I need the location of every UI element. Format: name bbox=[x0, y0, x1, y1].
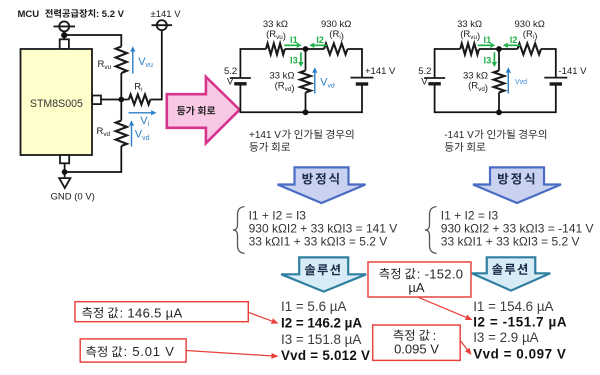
battery 5.2V circuit1 bbox=[230, 77, 251, 79]
node top circuit1 bbox=[303, 46, 309, 52]
measurement box -152.0uA bbox=[368, 262, 471, 297]
node divider junction bbox=[118, 97, 124, 103]
svg-text:-141 V: -141 V bbox=[444, 130, 474, 141]
svg-text:Vvd: Vvd bbox=[515, 79, 527, 86]
wire circuit1 loop bbox=[240, 49, 266, 78]
wire node to Rvd circuit1 bbox=[305, 49, 307, 71]
wire Ri to +-141V terminal bbox=[150, 30, 161, 100]
svg-text:I3 = 2.9 µA: I3 = 2.9 µA bbox=[473, 330, 538, 345]
resistor Rvu circuit2 bbox=[460, 44, 479, 55]
wire node to Rvd bbox=[120, 100, 122, 121]
measurement box 5.01V bbox=[80, 339, 186, 362]
wire Rvd to bottom circuit1 bbox=[305, 93, 307, 113]
pin sense right of STM8S005 bbox=[92, 96, 101, 105]
wire Rvd to ground bbox=[65, 146, 122, 172]
arrow I2 circuit1 bbox=[314, 44, 327, 46]
svg-text:I1 = 5.6 µA: I1 = 5.6 µA bbox=[281, 299, 346, 314]
wire Rvu to node bbox=[120, 73, 122, 100]
resistor Rvd (left block) bbox=[116, 121, 127, 146]
arrow I1 circuit1 bbox=[284, 44, 297, 46]
equation system 1 bbox=[233, 207, 245, 254]
resistor Ri circuit1 bbox=[324, 44, 348, 55]
svg-text:µA: µA bbox=[408, 280, 424, 295]
arrow measurement to I2 (1) bbox=[248, 312, 272, 321]
svg-text:I1: I1 bbox=[484, 35, 492, 45]
svg-text:V: V bbox=[227, 76, 234, 87]
svg-text:5.2: 5.2 bbox=[418, 66, 431, 77]
svg-text:I3: I3 bbox=[290, 56, 298, 66]
battery +141 V circuit1 bbox=[351, 77, 374, 79]
arrow equivalent circuit (pink) bbox=[167, 77, 240, 143]
svg-text:930 kΩI2 + 33 kΩI3 = 141 V: 930 kΩI2 + 33 kΩI3 = 141 V bbox=[249, 222, 398, 236]
arrow I3 circuit1 bbox=[300, 52, 302, 62]
svg-text:I2: I2 bbox=[316, 35, 324, 45]
svg-text:930 kΩI2 + 33 kΩI3 = -141 V: 930 kΩI2 + 33 kΩI3 = -141 V bbox=[441, 222, 594, 236]
resistor Ri circuit2 bbox=[518, 44, 542, 55]
svg-text:5.2: 5.2 bbox=[224, 66, 237, 77]
svg-text:I1 + I2 = I3: I1 + I2 = I3 bbox=[441, 209, 499, 223]
svg-text:±141 V: ±141 V bbox=[151, 9, 182, 20]
arrow solution 2 (cyan) bbox=[472, 257, 551, 290]
wire VSS pin to ground node bbox=[64, 163, 66, 177]
battery -141 V circuit2 bbox=[544, 77, 567, 79]
svg-text:: 5.2 V: : 5.2 V bbox=[96, 9, 125, 20]
resistor Rvu circuit1 bbox=[266, 44, 285, 55]
wire supply to Rvu bbox=[63, 31, 65, 39]
svg-text:I1: I1 bbox=[290, 35, 298, 45]
svg-text:I2 = -151.7 µA: I2 = -151.7 µA bbox=[473, 315, 567, 330]
arrow Vvd circuit2 bbox=[507, 73, 509, 94]
svg-text:I2: I2 bbox=[510, 35, 518, 45]
arrow measurement to Vvd (1) bbox=[186, 351, 271, 356]
arrow equation 1 (blue) bbox=[278, 167, 366, 203]
battery 5.2V circuit2 bbox=[424, 77, 445, 79]
measurement box 0.095V bbox=[373, 325, 461, 360]
svg-text:MCU: MCU bbox=[18, 9, 40, 20]
equation system 2 bbox=[425, 207, 437, 254]
svg-text:GND (0 V): GND (0 V) bbox=[51, 192, 95, 203]
chip STM8S005 bbox=[21, 49, 93, 155]
svg-text:V: V bbox=[421, 76, 428, 87]
wire node to Rvd circuit2 bbox=[498, 49, 500, 71]
arrow Vvd left block (blue) bbox=[131, 126, 133, 147]
node bottom circuit1 bbox=[303, 109, 309, 115]
svg-text:33 kΩI1 + 33 kΩI3 = 5.2 V: 33 kΩI1 + 33 kΩI3 = 5.2 V bbox=[441, 234, 580, 248]
resistor Ri (left block) bbox=[129, 95, 151, 105]
terminal +-141V bbox=[157, 20, 167, 30]
pin VSS bottom of STM8S005 bbox=[60, 155, 69, 163]
svg-text:-141 V: -141 V bbox=[559, 66, 588, 77]
arrow Vvu (blue) bbox=[132, 52, 134, 74]
svg-text:I3: I3 bbox=[484, 56, 492, 66]
svg-text:: 5.01 V: : 5.01 V bbox=[124, 344, 175, 359]
resistor Rvd circuit2 bbox=[494, 71, 505, 93]
svg-text:I1 + I2 = I3: I1 + I2 = I3 bbox=[249, 209, 307, 223]
measurement box 146.5uA bbox=[75, 302, 248, 322]
arrow solution 1 (cyan) bbox=[281, 257, 366, 291]
svg-text:STM8S005: STM8S005 bbox=[30, 98, 83, 110]
svg-text:+141 V: +141 V bbox=[249, 130, 281, 141]
ground symbol bbox=[59, 178, 70, 188]
svg-text:I2 = 146.2 µA: I2 = 146.2 µA bbox=[281, 316, 362, 331]
svg-text:0.095 V: 0.095 V bbox=[394, 342, 439, 357]
svg-text:I1 = 154.6 µA: I1 = 154.6 µA bbox=[473, 299, 553, 314]
arrow Vvd circuit1 bbox=[314, 73, 316, 94]
svg-text:Vvd = 0.097 V: Vvd = 0.097 V bbox=[473, 346, 566, 361]
svg-text:+141 V: +141 V bbox=[365, 66, 396, 77]
svg-text:: 146.5 µA: : 146.5 µA bbox=[120, 305, 183, 320]
node top circuit2 bbox=[496, 46, 502, 52]
wire circuit2 loop bbox=[435, 49, 461, 78]
svg-text:Vvd = 5.012 V: Vvd = 5.012 V bbox=[281, 348, 370, 363]
arrow Vi (blue) bbox=[129, 112, 152, 114]
arrow I2 circuit2 bbox=[508, 44, 521, 46]
arrow I1 circuit2 bbox=[478, 44, 491, 46]
svg-text:I3 = 151.8 µA: I3 = 151.8 µA bbox=[281, 332, 361, 347]
arrow measurement to I2 (2) bbox=[418, 297, 466, 317]
pin VDD top of STM8S005 bbox=[60, 39, 69, 49]
resistor Rvu (left block) bbox=[116, 47, 127, 74]
arrow measurement to Vvd (2) bbox=[460, 341, 467, 350]
node bottom circuit2 bbox=[496, 109, 502, 115]
node supply junction bbox=[61, 32, 67, 38]
wire pin to node bbox=[101, 99, 129, 101]
resistor Rvd circuit1 bbox=[300, 71, 311, 93]
arrow I3 circuit2 bbox=[493, 52, 495, 62]
arrow equation 2 (blue) bbox=[473, 167, 561, 203]
wire Rvd to bottom circuit2 bbox=[498, 93, 500, 113]
svg-text:33 kΩI1 + 33 kΩI3 = 5.2 V: 33 kΩI1 + 33 kΩI3 = 5.2 V bbox=[249, 234, 388, 248]
terminal +5.2V supply bbox=[59, 21, 69, 31]
node ground junction bbox=[62, 169, 68, 175]
